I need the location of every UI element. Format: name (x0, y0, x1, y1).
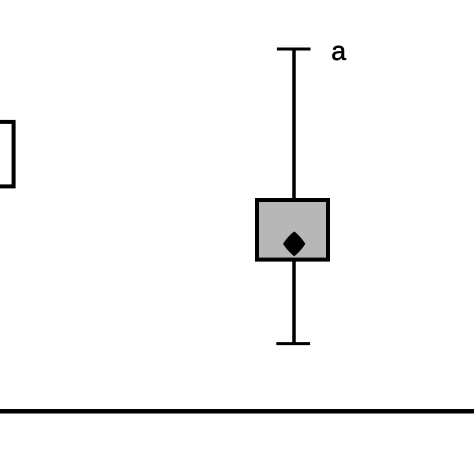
x axis line (0, 409, 474, 414)
IQR box (257, 200, 328, 260)
upper whisker line (292, 49, 296, 199)
lower whisker line (292, 260, 296, 344)
lower whisker cap (276, 342, 310, 345)
svg-text:a: a (331, 36, 346, 66)
left box (partial, cut off at image edge) (0, 122, 14, 186)
upper whisker cap (277, 48, 311, 51)
mean diamond marker (284, 232, 304, 255)
